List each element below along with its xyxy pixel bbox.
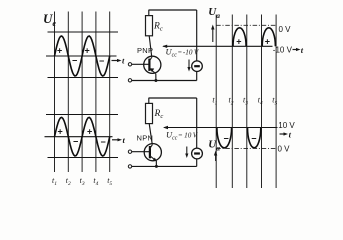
svg-text:0 V: 0 V [279, 25, 292, 34]
svg-text:t3: t3 [243, 96, 248, 107]
svg-text:Ucc = 10 V: Ucc = 10 V [166, 130, 199, 142]
svg-text:t5: t5 [107, 176, 112, 187]
svg-text:t: t [289, 130, 292, 140]
svg-text:−: − [101, 137, 106, 147]
svg-text:t: t [301, 45, 304, 55]
svg-text:−: − [73, 137, 78, 147]
svg-text:−: − [72, 56, 77, 66]
svg-text:Rc: Rc [154, 109, 164, 120]
svg-text:t1: t1 [212, 96, 217, 107]
svg-text:t2: t2 [66, 176, 71, 187]
svg-text:t4: t4 [258, 96, 263, 107]
svg-text:0 V: 0 V [278, 145, 291, 154]
svg-text:t: t [123, 135, 126, 145]
svg-text:+: + [58, 127, 63, 137]
svg-text:Ua: Ua [208, 6, 220, 20]
svg-text:Rc: Rc [153, 22, 163, 33]
svg-text:t: t [122, 56, 125, 66]
svg-text:+: + [265, 37, 270, 47]
svg-text:Ucc = -10 V: Ucc = -10 V [166, 47, 200, 59]
svg-text:t1: t1 [52, 176, 57, 187]
svg-text:t5: t5 [272, 96, 277, 107]
svg-text:−: − [99, 56, 104, 66]
svg-text:t4: t4 [93, 176, 98, 187]
svg-text:+: + [85, 46, 90, 56]
svg-text:PNP: PNP [137, 46, 153, 55]
svg-text:−: − [251, 134, 256, 144]
svg-text:t3: t3 [80, 176, 85, 187]
svg-text:t2: t2 [229, 96, 234, 107]
svg-text:+: + [87, 127, 92, 137]
svg-text:+: + [57, 46, 62, 56]
svg-text:+: + [236, 37, 241, 47]
svg-text:−: − [224, 134, 229, 144]
svg-text:NPN: NPN [137, 134, 154, 143]
svg-text:10 V: 10 V [278, 121, 295, 130]
svg-text:-10 V: -10 V [273, 46, 293, 55]
